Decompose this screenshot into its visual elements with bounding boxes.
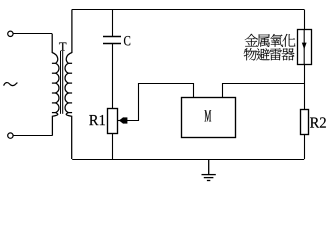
wire from lower terminal to transformer primary xyxy=(13,135,52,137)
circuit schematic: AC source, transformer T, capacitor C, potentiometer R1, motor M, metal-oxide arrester, resistor R2, ground xyxy=(0,0,330,190)
terminal upper-left xyxy=(8,31,13,36)
ground xyxy=(202,159,216,181)
bottom bus wire xyxy=(72,159,304,161)
label 金属氧化 line 1 xyxy=(245,34,296,47)
motor M box xyxy=(182,98,236,138)
resistor R2 xyxy=(301,110,309,135)
transformer secondary winding xyxy=(65,10,72,160)
label R2 xyxy=(310,117,326,127)
terminal lower-left xyxy=(8,133,13,138)
wire top bus to capacitor xyxy=(112,10,114,37)
arrester arrow xyxy=(302,29,307,65)
wire wiper to node above M xyxy=(127,84,194,121)
label R1 xyxy=(89,115,105,125)
wire M to right branch xyxy=(223,84,305,98)
transformer primary winding xyxy=(52,34,59,136)
transformer core xyxy=(60,51,61,114)
AC source symbol ~ xyxy=(4,83,18,86)
resistor R1 xyxy=(108,109,118,134)
wire R2 to bottom bus xyxy=(304,134,306,159)
R1 wiper arrow xyxy=(118,117,128,124)
top bus wire xyxy=(72,9,304,11)
label C xyxy=(124,36,130,45)
wire from upper terminal to transformer primary xyxy=(13,33,52,35)
wire arrester to R2 xyxy=(304,65,306,109)
wire capacitor to R1 xyxy=(112,44,114,108)
capacitor C plates xyxy=(103,36,121,38)
label T xyxy=(59,43,66,51)
metal oxide arrester box xyxy=(298,30,312,65)
label 物避雷器 line 2 xyxy=(244,48,295,60)
wire R1 to bottom bus xyxy=(112,133,114,159)
wire top bus to arrester xyxy=(304,10,306,30)
label M xyxy=(205,110,212,121)
